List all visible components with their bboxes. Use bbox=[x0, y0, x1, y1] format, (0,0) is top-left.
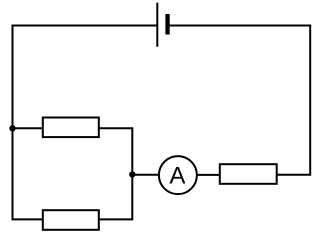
wire bbox=[168, 26, 310, 175]
wire bbox=[13, 26, 158, 220]
wire bbox=[197, 174, 220, 176]
wire bbox=[13, 127, 44, 129]
battery B1 bbox=[157, 3, 169, 47]
wire bbox=[132, 174, 159, 176]
node junction left bbox=[9, 125, 15, 131]
resistor R3 bbox=[220, 164, 277, 184]
ammeter A1 bbox=[159, 156, 197, 194]
resistor R2 bbox=[43, 210, 99, 230]
resistor R1 bbox=[43, 118, 99, 138]
node junction middle bbox=[129, 171, 135, 177]
wire bbox=[98, 128, 132, 219]
